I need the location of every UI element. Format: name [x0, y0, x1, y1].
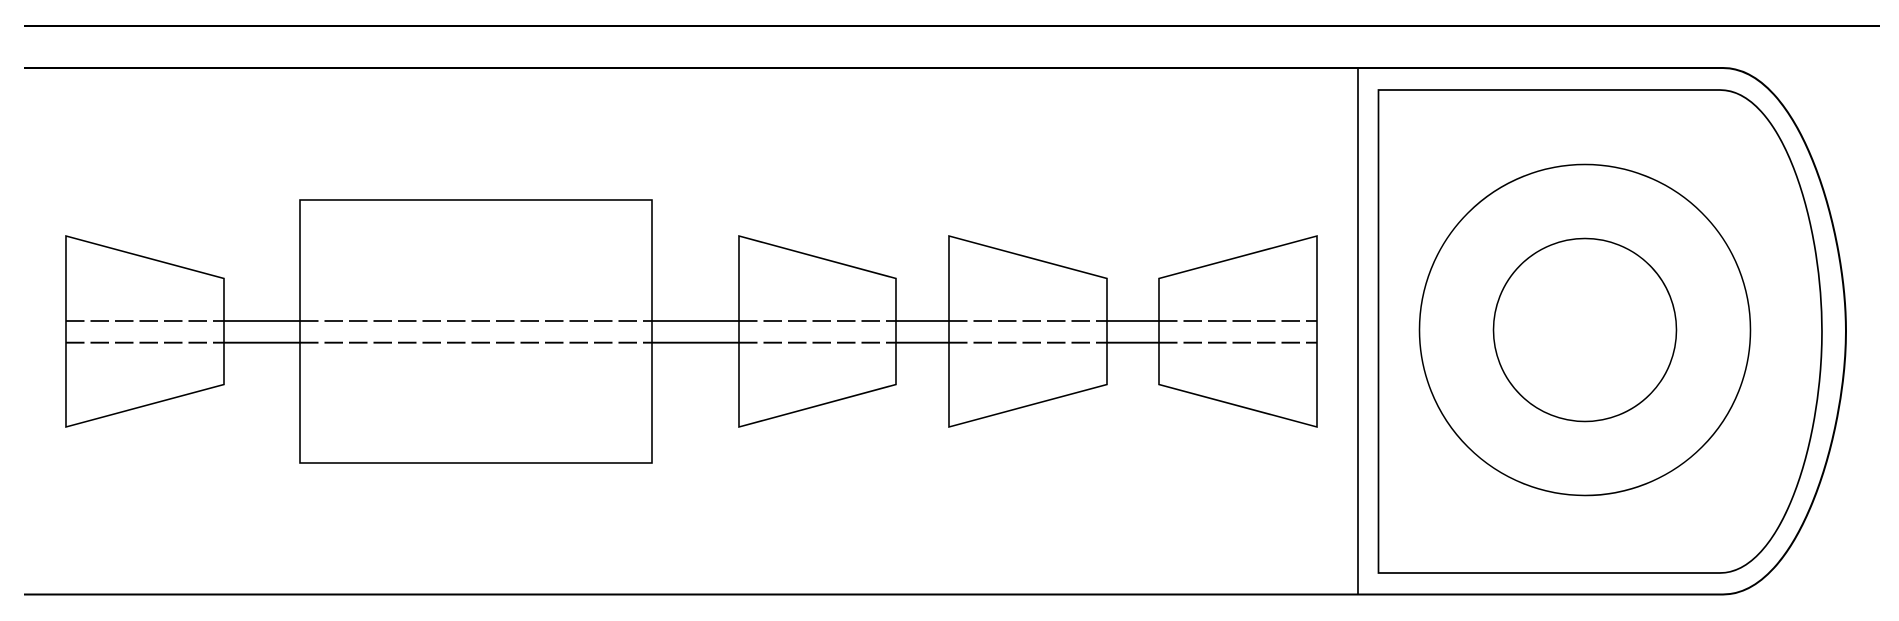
turbine trapezoid 1 — [739, 236, 896, 427]
centerline dashed upper in turbine 1 — [739, 320, 896, 322]
centerline dashed lower in turbine 2 — [949, 342, 1107, 344]
turbine trapezoid 2 — [949, 236, 1107, 427]
exhaust nozzle trapezoid — [1159, 236, 1317, 427]
shaft lower line segment B — [652, 342, 739, 344]
centerline dashed lower in nozzle — [1159, 342, 1317, 344]
shaft upper line segment C — [896, 320, 949, 322]
centerline dashed upper in compressor — [66, 320, 224, 322]
fan outer circle — [1420, 165, 1751, 496]
centerline dashed upper in nozzle — [1159, 320, 1317, 322]
top reference line — [24, 25, 1880, 27]
gearbox housing (rounded box) — [1379, 90, 1823, 573]
shaft upper line segment D — [1107, 320, 1159, 322]
fan hub inner circle — [1494, 239, 1677, 422]
shaft upper line segment A — [224, 320, 300, 322]
combustor rectangle — [300, 200, 652, 463]
shaft lower line segment D — [1107, 342, 1159, 344]
centerline dashed lower in compressor — [66, 342, 224, 344]
bulkhead divider — [1357, 68, 1359, 595]
centerline dashed upper in combustor — [300, 320, 652, 322]
compressor trapezoid — [66, 236, 224, 427]
centerline dashed lower in combustor — [300, 342, 652, 344]
centerline dashed lower in turbine 1 — [739, 342, 896, 344]
shaft lower line segment A — [224, 342, 300, 344]
shaft upper line segment B — [652, 320, 739, 322]
shaft lower line segment C — [896, 342, 949, 344]
centerline dashed upper in turbine 2 — [949, 320, 1107, 322]
